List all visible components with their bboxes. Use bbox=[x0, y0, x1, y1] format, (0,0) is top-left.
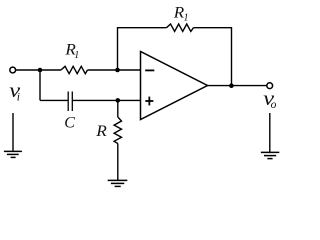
feedback wire down to output node bbox=[194, 28, 232, 86]
wire vo ground bbox=[269, 113, 271, 152]
svg-text:1: 1 bbox=[184, 12, 189, 23]
resistor R (vertical) bbox=[114, 117, 121, 144]
label R1 (series) bbox=[64, 40, 79, 61]
feedback wire up from inverting node bbox=[118, 28, 167, 70]
op-amp U1 bbox=[141, 52, 208, 120]
svg-text:o: o bbox=[271, 99, 277, 111]
resistor R1 (series input) bbox=[61, 66, 88, 73]
op-amp minus sign bbox=[145, 69, 154, 71]
wire R1 to op-amp inverting input bbox=[88, 69, 141, 71]
wire R to ground bbox=[117, 144, 119, 181]
output wire from op-amp bbox=[208, 85, 267, 87]
svg-text:C: C bbox=[64, 114, 75, 131]
svg-text:R: R bbox=[95, 122, 107, 140]
ground (left, below vi) bbox=[4, 151, 22, 157]
resistor R1 (feedback) bbox=[167, 24, 194, 31]
wire node D down to R bbox=[117, 100, 119, 117]
label vo bbox=[263, 87, 276, 111]
node D (noninverting input node) bbox=[116, 98, 121, 103]
wire node A down bbox=[39, 70, 41, 100]
label vi bbox=[9, 79, 20, 103]
node E (output node) bbox=[229, 83, 234, 88]
svg-text:R: R bbox=[173, 3, 185, 21]
svg-text:i: i bbox=[17, 91, 20, 103]
wire vi ground bbox=[12, 113, 14, 151]
output terminal vo bbox=[267, 83, 273, 89]
capacitor C bbox=[68, 92, 72, 112]
ground (below R) bbox=[108, 180, 128, 186]
svg-text:1: 1 bbox=[74, 50, 79, 61]
op-amp plus sign bbox=[145, 97, 153, 106]
wire capacitor to op-amp noninverting input bbox=[73, 99, 141, 101]
wire input to R1 bbox=[16, 69, 61, 71]
label R1 (feedback) bbox=[173, 3, 189, 23]
wire to capacitor left plate bbox=[40, 99, 68, 101]
label R bbox=[95, 122, 107, 140]
node A (input node) bbox=[38, 68, 43, 73]
input terminal vi bbox=[10, 67, 16, 73]
ground (right, below vo) bbox=[261, 152, 279, 158]
node B (inverting input node) bbox=[115, 68, 120, 73]
